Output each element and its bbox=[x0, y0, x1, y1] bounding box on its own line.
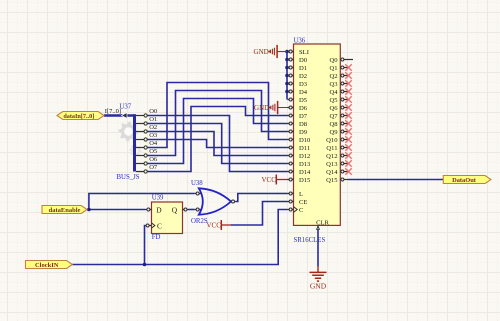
svg-text:U37: U37 bbox=[120, 104, 132, 111]
svg-text:Q13: Q13 bbox=[326, 161, 338, 168]
svg-text:GND: GND bbox=[310, 282, 327, 291]
svg-text:Q3: Q3 bbox=[329, 81, 338, 88]
svg-text:D: D bbox=[156, 206, 162, 215]
svg-text:FD: FD bbox=[152, 234, 161, 241]
svg-text:D0: D0 bbox=[299, 57, 308, 64]
svg-text:BUS_JS: BUS_JS bbox=[117, 174, 140, 181]
svg-text:D11: D11 bbox=[299, 145, 310, 152]
svg-text:ClockIN: ClockIN bbox=[35, 262, 59, 269]
svg-text:O1: O1 bbox=[149, 116, 157, 123]
svg-text:SR16CLES: SR16CLES bbox=[294, 237, 326, 244]
svg-text:DataOut: DataOut bbox=[452, 177, 477, 184]
svg-text:L: L bbox=[299, 191, 303, 198]
svg-text:Q2: Q2 bbox=[329, 73, 337, 80]
svg-text:Q5: Q5 bbox=[329, 97, 338, 104]
svg-text:O2: O2 bbox=[149, 124, 157, 131]
svg-text:D15: D15 bbox=[299, 177, 311, 184]
svg-text:Q7: Q7 bbox=[329, 113, 338, 120]
svg-text:Q6: Q6 bbox=[329, 105, 338, 112]
svg-text:D7: D7 bbox=[299, 113, 308, 120]
svg-text:GND: GND bbox=[254, 48, 269, 56]
svg-text:VCC: VCC bbox=[207, 222, 222, 230]
svg-text:O3: O3 bbox=[149, 132, 157, 139]
svg-text:CE: CE bbox=[299, 199, 307, 206]
svg-text:Q8: Q8 bbox=[329, 121, 338, 128]
svg-text:O5: O5 bbox=[149, 148, 157, 155]
svg-text:O0: O0 bbox=[149, 108, 157, 115]
svg-text:U38: U38 bbox=[191, 180, 203, 187]
svg-text:D6: D6 bbox=[299, 105, 308, 112]
svg-text:U39: U39 bbox=[152, 195, 164, 202]
svg-text:O6: O6 bbox=[149, 156, 158, 163]
svg-text:Q15: Q15 bbox=[326, 177, 338, 184]
svg-text:D14: D14 bbox=[299, 169, 311, 176]
svg-text:U36: U36 bbox=[294, 38, 306, 45]
svg-text:CLR: CLR bbox=[316, 219, 329, 226]
svg-text:D9: D9 bbox=[299, 129, 308, 136]
svg-text:Q0: Q0 bbox=[329, 57, 338, 64]
svg-text:SLI: SLI bbox=[299, 49, 309, 56]
svg-text:Q14: Q14 bbox=[326, 169, 338, 176]
svg-text:OR2S: OR2S bbox=[191, 218, 208, 225]
svg-text:D3: D3 bbox=[299, 81, 308, 88]
svg-text:D5: D5 bbox=[299, 97, 308, 104]
svg-text:D2: D2 bbox=[299, 73, 307, 80]
svg-text:D13: D13 bbox=[299, 161, 311, 168]
svg-text:C: C bbox=[157, 221, 162, 230]
svg-text:Q12: Q12 bbox=[326, 153, 337, 160]
svg-text:D1: D1 bbox=[299, 65, 307, 72]
svg-text:D8: D8 bbox=[299, 121, 308, 128]
svg-text:Q10: Q10 bbox=[326, 137, 338, 144]
svg-text:O4: O4 bbox=[149, 140, 158, 147]
svg-text:dataIn[7..0]: dataIn[7..0] bbox=[63, 113, 94, 120]
svg-text:Q4: Q4 bbox=[329, 89, 338, 96]
svg-text:O7: O7 bbox=[149, 164, 158, 171]
svg-text:dataEnable: dataEnable bbox=[49, 207, 81, 214]
svg-text:GND: GND bbox=[254, 104, 269, 112]
svg-text:Q1: Q1 bbox=[329, 65, 337, 72]
svg-text:D10: D10 bbox=[299, 137, 311, 144]
svg-text:Q: Q bbox=[172, 206, 178, 215]
svg-text:I[7..0]: I[7..0] bbox=[105, 108, 121, 115]
svg-text:Q11: Q11 bbox=[326, 145, 337, 152]
svg-text:VCC: VCC bbox=[262, 176, 277, 184]
svg-text:Q9: Q9 bbox=[329, 129, 338, 136]
svg-text:C: C bbox=[299, 207, 304, 214]
svg-text:D4: D4 bbox=[299, 89, 308, 96]
svg-text:D12: D12 bbox=[299, 153, 310, 160]
